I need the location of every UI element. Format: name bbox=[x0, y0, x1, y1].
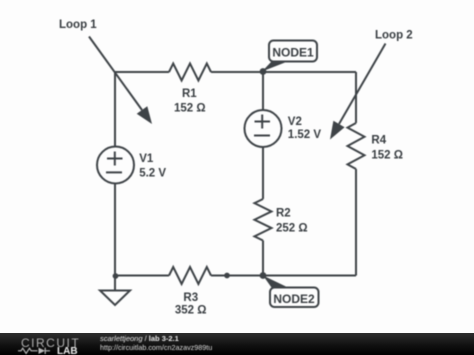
svg-text:R4: R4 bbox=[371, 134, 386, 146]
svg-text:252 Ω: 252 Ω bbox=[276, 222, 308, 234]
svg-text:NODE2: NODE2 bbox=[273, 292, 315, 306]
svg-text:152 Ω: 152 Ω bbox=[174, 102, 206, 114]
svg-text:Loop 2: Loop 2 bbox=[375, 30, 413, 42]
svg-text:R1: R1 bbox=[182, 88, 197, 100]
svg-text:1.52 V: 1.52 V bbox=[288, 129, 322, 141]
svg-text:R2: R2 bbox=[276, 207, 291, 219]
svg-text:352 Ω: 352 Ω bbox=[175, 305, 207, 317]
svg-text:V2: V2 bbox=[288, 116, 302, 128]
svg-text:NODE1: NODE1 bbox=[272, 45, 314, 59]
svg-text:5.2 V: 5.2 V bbox=[139, 167, 166, 179]
svg-text:Loop 1: Loop 1 bbox=[59, 19, 97, 31]
svg-text:V1: V1 bbox=[139, 153, 154, 165]
svg-text:R3: R3 bbox=[183, 292, 198, 304]
svg-text:LAB: LAB bbox=[57, 346, 78, 355]
svg-text:152 Ω: 152 Ω bbox=[371, 149, 403, 161]
